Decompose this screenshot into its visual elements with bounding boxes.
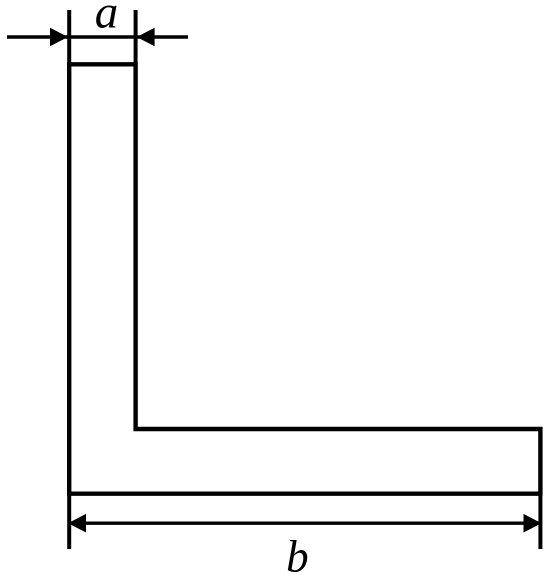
svg-text:a: a	[95, 0, 119, 39]
dimension a: right extension line	[134, 10, 138, 64]
dimension b: left extension line	[67, 494, 71, 549]
dimension b: right arrowhead	[524, 514, 542, 533]
dimension b: right extension line	[538, 494, 542, 549]
dimension b: left arrowhead	[68, 514, 86, 533]
svg-text:b: b	[286, 532, 309, 582]
dimension a: right arrowhead	[137, 28, 155, 47]
dimension a: left extension line	[67, 10, 71, 64]
dimension a: left arrowhead	[50, 28, 68, 47]
L-profile outline	[69, 64, 540, 493]
dimension b: dimension line	[69, 522, 540, 525]
dimension a: dimension line	[7, 35, 188, 38]
